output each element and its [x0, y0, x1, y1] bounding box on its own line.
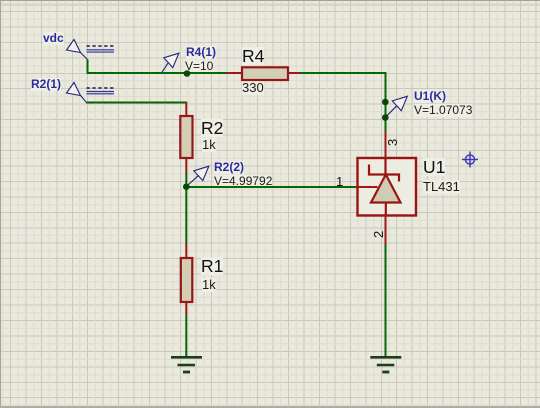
ground under R1	[171, 357, 202, 372]
label vdc	[43, 32, 64, 45]
wire vdc down	[87, 60, 89, 74]
resistor R4	[227, 67, 301, 80]
value 1k (R1)	[202, 278, 216, 292]
value TL431	[423, 180, 460, 194]
resistor R2	[180, 102, 192, 173]
probe label U1(K)	[414, 90, 446, 103]
pin number 1	[336, 175, 343, 189]
label R4	[242, 47, 264, 65]
probe label R4(1)	[186, 46, 216, 59]
resistor R1	[181, 244, 193, 315]
probe label R2(2)	[214, 161, 244, 174]
window edge top	[0, 0, 540, 1]
wire node to U1 pin1	[185, 186, 355, 188]
U1 pin 3	[385, 132, 387, 159]
value 1k (R2)	[202, 138, 216, 152]
junction node R4(1)	[184, 70, 191, 77]
probe value V=4.99792	[214, 175, 272, 188]
wire R1 to ground	[185, 315, 187, 358]
voltage probe arrow U1(K)	[385, 96, 407, 117]
U1 pin 2	[385, 216, 387, 245]
label R1	[201, 257, 223, 275]
junction node U1(K) lower	[382, 114, 389, 121]
window edge bottom	[0, 406, 540, 408]
label R2(1)	[31, 78, 61, 91]
pin number 2	[372, 230, 386, 237]
voltage probe arrow R4(1)	[162, 53, 179, 73]
probe value V=10	[185, 60, 213, 73]
wire vdc to R4	[87, 72, 228, 74]
probe value V=1.07073	[414, 104, 472, 117]
U1 pin 1	[356, 186, 378, 188]
generator R2(1) symbol	[67, 83, 115, 103]
wire U1 pin2 to ground	[385, 244, 387, 358]
label R2	[201, 119, 223, 137]
generator vdc symbol	[67, 40, 115, 60]
origin marker crosshair	[462, 152, 478, 168]
wire R4 to U1 pin3 corner	[299, 73, 386, 132]
op-amp U1 TL431 body	[358, 158, 417, 216]
ground under U1	[370, 357, 401, 372]
wire R2 bottom to node	[185, 173, 187, 188]
wire node down to R1	[185, 187, 187, 244]
value 330	[242, 81, 264, 95]
wire R2(1) to R2	[86, 102, 186, 104]
pin number 3	[386, 139, 400, 146]
junction node U1(K) upper	[382, 99, 389, 106]
junction node R2(2)	[183, 183, 190, 190]
window edge left	[0, 0, 1, 408]
voltage probe arrow R2(2)	[187, 166, 209, 186]
label U1	[423, 158, 445, 176]
